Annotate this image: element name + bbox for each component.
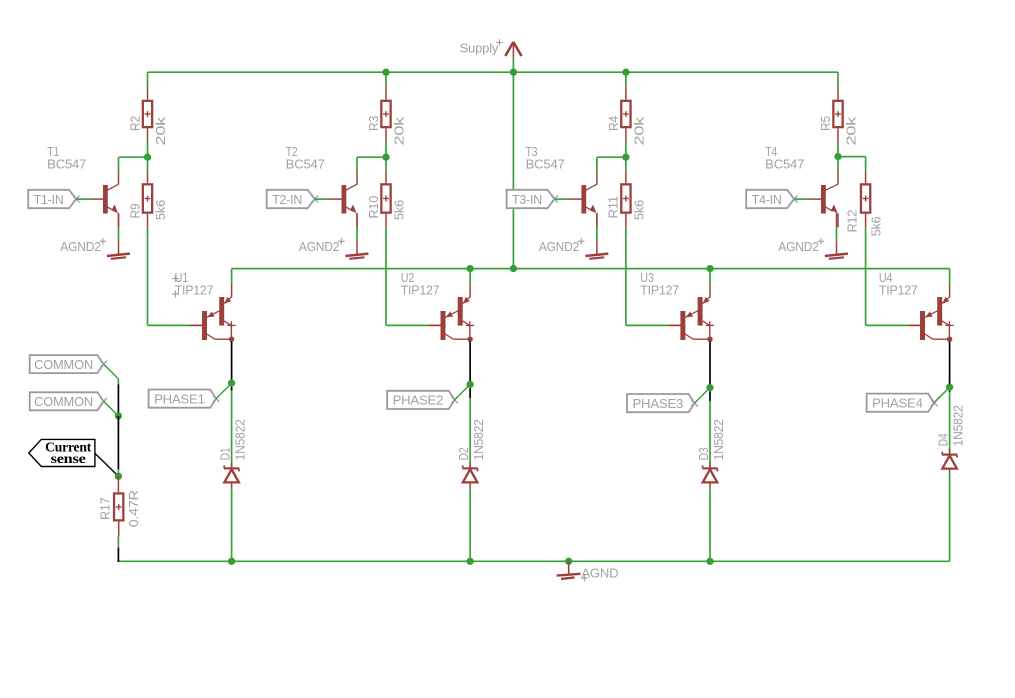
resistor R9 <box>127 184 168 220</box>
wire D1 to bottom rail <box>231 488 233 561</box>
op-amp-none transistor U2 TIP127 <box>401 270 474 342</box>
transistor T2 BC547 <box>286 144 357 227</box>
svg-text:5k6: 5k6 <box>153 200 168 220</box>
wire U2 collector stub (black) <box>469 341 471 384</box>
svg-text:TIP127: TIP127 <box>401 282 440 297</box>
svg-text:D4: D4 <box>935 434 950 447</box>
wire R17 bottom pin <box>117 522 119 548</box>
svg-text:20k: 20k <box>632 116 647 145</box>
junction bottom rail / D1 <box>228 558 235 565</box>
flag PHASE1 <box>149 390 220 408</box>
svg-text:0.47R: 0.47R <box>126 490 141 527</box>
svg-text:TIP127: TIP127 <box>175 282 214 297</box>
wire R10 top pin <box>385 157 387 183</box>
svg-text:20k: 20k <box>392 116 407 145</box>
svg-text:PHASE4: PHASE4 <box>872 396 923 411</box>
node PHASE4 junction <box>946 384 953 391</box>
svg-text:R10: R10 <box>366 196 381 219</box>
wire U2 emitter up <box>469 269 471 285</box>
flag PHASE4 <box>867 394 938 412</box>
wire U3 collector stub (black) <box>709 341 711 387</box>
wire R4 bottom pin <box>625 128 627 157</box>
ground AGND2 (T4) <box>778 238 848 259</box>
wire phase column 4 <box>949 392 951 455</box>
wire T3 collector up <box>596 157 598 171</box>
svg-text:PHASE3: PHASE3 <box>633 396 684 411</box>
node PHASE3 junction <box>706 384 713 391</box>
op-amp-none transistor U1 TIP127 <box>175 270 236 342</box>
wire R5 bottom pin <box>837 128 839 156</box>
svg-text:T2-IN: T2-IN <box>272 192 302 207</box>
resistor R5 <box>818 101 859 146</box>
wire T3 emitter down <box>596 213 598 241</box>
svg-text:BC547: BC547 <box>286 156 325 171</box>
wire common column upper (black) <box>117 384 119 416</box>
svg-text:BC547: BC547 <box>526 156 565 171</box>
flag COMMON (lower) <box>30 392 107 410</box>
svg-text:D2: D2 <box>456 448 471 461</box>
svg-text:AGND: AGND <box>581 566 618 581</box>
wire to bottom rail (black) <box>117 548 119 562</box>
ground AGND2 (T2) <box>299 238 369 259</box>
wire phase stub below (black) <box>709 391 711 401</box>
svg-text:R12: R12 <box>844 210 859 233</box>
wire T2 collector up <box>356 157 358 171</box>
svg-text:Supply: Supply <box>460 41 499 56</box>
wire PHASE1 diagonal <box>216 383 232 399</box>
wire R2 bottom pin <box>147 128 149 157</box>
wire bottom AGND rail <box>118 560 949 562</box>
diode D4 1N5822 <box>935 405 965 474</box>
resistor R17 <box>97 490 140 527</box>
svg-text:R2: R2 <box>128 116 143 131</box>
wire R12 top pin <box>865 157 867 184</box>
flag T1-IN <box>28 190 79 208</box>
flag T2-IN <box>267 190 318 208</box>
wire R11 bottom to U3 base <box>626 214 681 326</box>
svg-text:T1-IN: T1-IN <box>34 192 64 207</box>
resistor R3 <box>366 101 407 146</box>
node PHASE2 junction <box>466 381 473 388</box>
junction collector node 2 <box>382 154 389 161</box>
wire T2-IN to base <box>315 198 330 200</box>
svg-text:COMMON: COMMON <box>34 357 93 372</box>
wire phase stub below (black) <box>469 388 471 398</box>
svg-text:PHASE2: PHASE2 <box>393 393 444 408</box>
resistor R12 <box>844 184 883 236</box>
supply symbol Supply+ <box>460 39 522 58</box>
op-amp-none transistor U4 TIP127 <box>879 270 954 342</box>
svg-text:TIP127: TIP127 <box>640 282 679 297</box>
origin crosses U1 <box>172 275 179 297</box>
wire R4 top pin <box>625 72 627 100</box>
transistor T4 BC547 <box>765 144 838 227</box>
svg-text:T3-IN: T3-IN <box>512 192 542 207</box>
wire R11 top pin <box>625 157 627 183</box>
wire R2 top pin <box>147 72 149 100</box>
diode D3 1N5822 <box>696 419 726 488</box>
svg-text:1N5822: 1N5822 <box>951 405 966 446</box>
wire R5 top pin <box>837 72 839 100</box>
wire R9 top pin <box>147 157 149 183</box>
wire T4-IN to base <box>794 198 809 200</box>
wire T4 collector up <box>837 157 839 171</box>
svg-text:PHASE1: PHASE1 <box>154 391 205 406</box>
wire collector jog cell4 <box>838 156 866 158</box>
svg-text:D1: D1 <box>217 448 232 461</box>
svg-text:R5: R5 <box>818 116 833 131</box>
svg-text:1N5822: 1N5822 <box>711 419 726 460</box>
ground AGND2 (T3) <box>539 238 609 259</box>
svg-text:R17: R17 <box>97 498 112 521</box>
wire D4 to bottom rail <box>949 475 951 562</box>
flag T4-IN <box>746 190 797 208</box>
svg-text:T4-IN: T4-IN <box>752 192 782 207</box>
junction COMMON node <box>115 412 122 419</box>
svg-text:AGND2: AGND2 <box>778 239 819 254</box>
diode D2 1N5822 <box>456 419 486 488</box>
junction collector node 4 <box>834 153 841 160</box>
wire PHASE3 diagonal <box>695 388 711 404</box>
node PHASE1 junction <box>228 379 235 386</box>
svg-text:BC547: BC547 <box>765 156 804 171</box>
svg-text:AGND2: AGND2 <box>60 239 101 254</box>
junction collector node 3 <box>622 154 629 161</box>
wire phase stub below (black) <box>949 391 951 392</box>
svg-text:1N5822: 1N5822 <box>471 419 486 460</box>
wire R3 top pin <box>385 72 387 100</box>
svg-text:R9: R9 <box>127 204 142 219</box>
wire R3 bottom pin <box>385 128 387 157</box>
transistor T3 BC547 <box>526 144 597 227</box>
wire PHASE4 diagonal <box>934 387 950 403</box>
wire R10 bottom to U2 base <box>386 214 441 326</box>
junction bottom rail / D2 <box>466 558 473 565</box>
diode D1 1N5822 <box>217 419 247 488</box>
svg-text:5k6: 5k6 <box>631 200 646 220</box>
junction emitter rail / supply <box>510 265 517 272</box>
wire T1-IN to base <box>76 198 91 200</box>
ground AGND2 (T1) <box>60 238 130 259</box>
svg-text:20k: 20k <box>844 116 859 145</box>
wire COMMON upper diagonal <box>104 364 119 384</box>
svg-text:AGND2: AGND2 <box>299 239 340 254</box>
svg-text:R11: R11 <box>606 196 621 219</box>
wire supply stem <box>512 59 514 73</box>
wire R9 bottom to U1 base <box>148 214 203 326</box>
junction collector node 1 <box>144 154 151 161</box>
junction top rail / R4 <box>622 69 629 76</box>
svg-text:1N5822: 1N5822 <box>233 419 248 460</box>
junction top rail / supply <box>510 69 517 76</box>
wire phase column 1 <box>231 391 233 469</box>
wire collector jog 3 <box>597 156 626 158</box>
svg-text:R3: R3 <box>366 116 381 131</box>
wire T3-IN to base <box>555 198 570 200</box>
svg-text:20k: 20k <box>153 116 168 145</box>
resistor R2 <box>128 101 169 146</box>
svg-text:5k6: 5k6 <box>868 216 883 236</box>
junction emitter rail / U2 <box>466 265 473 272</box>
wire U3 emitter up <box>709 269 711 285</box>
wire R12 bottom to U4 base <box>866 214 921 326</box>
svg-text:TIP127: TIP127 <box>879 282 918 297</box>
junction bottom rail / D3 <box>706 558 713 565</box>
resistor R10 <box>366 184 407 220</box>
wire top supply rail <box>148 71 839 73</box>
flag PHASE2 <box>387 391 458 409</box>
junction current sense node <box>115 473 122 480</box>
svg-text:COMMON: COMMON <box>34 394 93 409</box>
wire collector jog 1 <box>119 156 148 158</box>
wire common column mid (black) <box>117 416 119 470</box>
wire common column green stub <box>117 469 119 476</box>
ground AGND <box>557 561 619 581</box>
junction top rail / R3 <box>382 69 389 76</box>
wire U4 emitter up <box>949 269 951 285</box>
resistor R4 <box>606 101 647 146</box>
svg-text:sense: sense <box>51 451 86 466</box>
svg-text:D3: D3 <box>696 448 711 461</box>
svg-text:BC547: BC547 <box>47 156 86 171</box>
wire phase column 3 <box>709 401 711 468</box>
wire collector jog 2 <box>357 156 386 158</box>
transistor T1 BC547 <box>47 144 118 227</box>
wire U1 collector stub (black) <box>231 341 233 383</box>
wire PHASE2 diagonal <box>455 384 471 400</box>
wire T1 collector up <box>118 157 120 171</box>
wire current sense diagonal (black) <box>95 453 119 476</box>
wire phase stub below (black) <box>231 387 233 391</box>
svg-text:5k6: 5k6 <box>392 200 407 220</box>
junction bottom rail / AGND <box>565 558 572 565</box>
wire R17 top pin <box>117 476 119 492</box>
wire phase column 2 <box>469 398 471 468</box>
resistor R11 <box>606 184 647 220</box>
junction emitter rail / U3 <box>706 265 713 272</box>
svg-text:R4: R4 <box>606 116 621 131</box>
wire emitter rail <box>232 268 950 270</box>
svg-text:AGND2: AGND2 <box>539 239 580 254</box>
flag T3-IN <box>507 190 558 208</box>
op-amp-none transistor U3 TIP127 <box>640 270 714 342</box>
wire U1 emitter up <box>231 269 233 285</box>
wire D2 to bottom rail <box>469 488 471 561</box>
wire D3 to bottom rail <box>709 488 711 561</box>
flag COMMON (upper) <box>30 355 107 373</box>
wire U4 collector stub (black) <box>949 341 951 387</box>
wire supply column down <box>512 72 514 268</box>
wire T1 emitter down <box>118 213 120 241</box>
wire T4 emitter down <box>836 213 838 241</box>
flag Current sense <box>29 439 95 466</box>
flag PHASE3 <box>627 394 698 412</box>
wire COMMON lower diagonal <box>104 401 119 416</box>
wire T2 emitter down <box>356 213 358 241</box>
